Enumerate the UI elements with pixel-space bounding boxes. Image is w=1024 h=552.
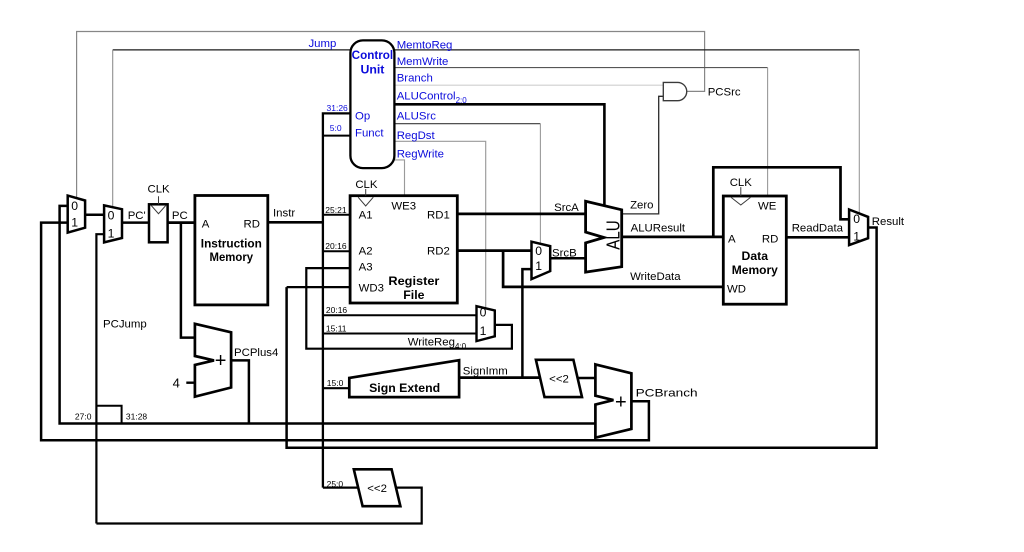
wire PC tap to PCPlus4 adder xyxy=(181,223,195,338)
mux M5 result/MemtoReg mux xyxy=(849,210,868,246)
svg-text:Instruction: Instruction xyxy=(201,236,262,250)
svg-text:A: A xyxy=(728,233,736,245)
svg-text:PCBranch: PCBranch xyxy=(636,387,698,399)
svg-text:0: 0 xyxy=(71,199,78,213)
wire ReadData (data memory RD to result mux input 1) xyxy=(786,236,849,239)
svg-text:Memory: Memory xyxy=(210,250,254,264)
wire Instr vertical bus with Op tap xyxy=(323,113,351,487)
wire PC (PC register to instruction memory) xyxy=(168,221,195,224)
svg-text:WriteData: WriteData xyxy=(630,271,681,283)
svg-text:PCJump: PCJump xyxy=(103,319,147,331)
svg-text:MemWrite: MemWrite xyxy=(397,56,449,68)
svg-text:Unit: Unit xyxy=(360,62,384,76)
svg-text:Sign Extend: Sign Extend xyxy=(369,381,440,395)
svg-text:PC: PC xyxy=(172,210,188,222)
svg-text:1: 1 xyxy=(853,230,860,244)
mux M2 jump mux xyxy=(104,205,122,242)
wire Result to WD3 xyxy=(287,286,351,288)
register PC xyxy=(149,204,168,242)
svg-text:Control: Control xyxy=(352,48,394,62)
wire 15:0 to sign extend xyxy=(323,387,349,389)
wire MemWrite horizontal xyxy=(394,67,767,69)
svg-text:PC': PC' xyxy=(128,210,146,222)
shifter S1 branch left-shift-2 xyxy=(536,360,582,397)
wire PCJump vertical (to jump mux input 1) xyxy=(96,234,104,523)
svg-text:Jump: Jump xyxy=(308,38,336,50)
svg-text:A: A xyxy=(202,219,210,231)
wire RD2 to SrcB mux input 0 xyxy=(457,249,531,252)
wire Jump (control unit left to jump mux select) xyxy=(113,49,351,51)
wire MemWrite vertical to WE xyxy=(767,68,769,197)
svg-text:+: + xyxy=(615,391,627,413)
wire ALUResult (ALU to data memory A) xyxy=(622,236,724,239)
wire MemtoReg select vertical xyxy=(858,50,860,214)
svg-text:WD3: WD3 xyxy=(359,282,384,294)
wire jump concat step 31:28/27:0 xyxy=(96,406,121,424)
svg-text:SrcA: SrcA xyxy=(554,202,579,214)
svg-text:0: 0 xyxy=(853,212,860,226)
svg-text:A3: A3 xyxy=(359,261,373,273)
svg-text:1: 1 xyxy=(535,259,542,273)
svg-text:ReadData: ReadData xyxy=(792,223,844,235)
svg-text:Funct: Funct xyxy=(355,128,384,140)
data memory box xyxy=(723,196,786,304)
instruction memory box xyxy=(195,196,268,305)
svg-text:<<2: <<2 xyxy=(549,374,569,386)
svg-text:0: 0 xyxy=(535,244,542,258)
clock stub data memory xyxy=(740,187,742,196)
wire 20:16 to WriteReg mux input 0 xyxy=(323,314,477,316)
svg-text:1: 1 xyxy=(71,216,78,230)
wire branch mux output to jump mux input 0 xyxy=(85,213,104,216)
wire PCBranch (adder output down and left to branch mux input 1) xyxy=(41,223,649,441)
wire Result feedback (mux output down, along bottom, up to WD3) xyxy=(287,228,877,448)
wire PCPlus4 (adder output down, left along bottom, up to branch mux input 0) xyxy=(60,206,596,424)
svg-text:31:26: 31:26 xyxy=(327,103,349,113)
svg-text:0: 0 xyxy=(480,306,487,320)
clock stub PC xyxy=(158,196,160,204)
svg-text:WE: WE xyxy=(758,200,777,212)
svg-text:CLK: CLK xyxy=(355,179,378,191)
svg-text:1: 1 xyxy=(108,226,115,240)
svg-text:PCPlus4: PCPlus4 xyxy=(234,347,278,359)
register file box xyxy=(350,196,457,303)
wire PCSrc loop (AND output up over top to branch mux select) xyxy=(77,32,705,198)
svg-text:RD2: RD2 xyxy=(427,245,450,257)
svg-text:CLK: CLK xyxy=(148,184,171,196)
wire constant 4 stub xyxy=(186,382,195,384)
svg-text:ALU: ALU xyxy=(603,220,623,250)
svg-text:Op: Op xyxy=(355,111,370,123)
wire 20:16 to A2 xyxy=(323,250,350,252)
svg-text:1: 1 xyxy=(480,324,487,338)
svg-text:PCSrc: PCSrc xyxy=(708,86,741,98)
wire SignImm (sign extend output to branch shifter) xyxy=(459,376,540,379)
svg-text:RD1: RD1 xyxy=(427,209,450,221)
svg-text:SignImm: SignImm xyxy=(463,366,508,378)
svg-text:ALUSrc: ALUSrc xyxy=(397,111,437,123)
svg-text:0: 0 xyxy=(108,208,115,222)
adder PCBranch xyxy=(595,364,631,437)
svg-text:Zero: Zero xyxy=(630,199,653,211)
ALU U2 xyxy=(586,201,622,272)
svg-text:15:11: 15:11 xyxy=(326,323,347,333)
svg-text:File: File xyxy=(403,288,424,302)
clock triangle data memory xyxy=(731,197,750,205)
svg-text:WE3: WE3 xyxy=(391,201,416,213)
svg-text:CLK: CLK xyxy=(730,177,753,189)
wire SrcA (RD1 to ALU) xyxy=(457,213,585,216)
svg-text:RD: RD xyxy=(244,219,260,231)
svg-text:31:28: 31:28 xyxy=(126,411,148,421)
wire SrcB (mux output to ALU) xyxy=(550,257,585,260)
svg-text:Branch: Branch xyxy=(397,73,433,85)
wire jump shifter output (down and left along bottom) xyxy=(96,488,421,524)
svg-text:ALUResult: ALUResult xyxy=(631,223,686,235)
wire Instr (instruction memory RD to fan-out bus) xyxy=(268,221,323,224)
sign extend block xyxy=(349,360,459,397)
svg-text:Instr: Instr xyxy=(273,208,295,220)
clock triangle register file xyxy=(358,197,373,206)
clock stub register file xyxy=(365,189,367,196)
svg-text:20:16: 20:16 xyxy=(325,241,347,251)
wire RegDst xyxy=(394,141,485,308)
wire ALUSrc horizontal xyxy=(394,123,540,125)
wire jump shifter input 25:0 xyxy=(323,487,358,489)
svg-text:SrcB: SrcB xyxy=(552,248,577,260)
wire 25:21 to A1 xyxy=(323,214,350,216)
svg-text:Register: Register xyxy=(388,274,439,288)
wire 15:11 to WriteReg mux input 1 xyxy=(323,333,477,335)
svg-text:Memory: Memory xyxy=(732,263,778,277)
clock triangle PC xyxy=(151,206,165,214)
svg-text:15:0: 15:0 xyxy=(327,378,344,388)
svg-text:WD: WD xyxy=(727,283,746,295)
svg-text:+: + xyxy=(215,350,227,372)
adder PCPlus4 xyxy=(195,324,231,397)
wire Branch (to AND gate input) xyxy=(394,84,663,86)
mux M1 branch/PCSrc mux xyxy=(68,196,85,233)
AND gate PCSrc xyxy=(663,82,686,100)
svg-text:A2: A2 xyxy=(359,245,373,257)
wire SignImm riser to SrcB mux input 1 xyxy=(522,269,531,378)
mux M3 WriteReg/RegDst mux xyxy=(477,306,495,341)
wire WriteData (RD2 tap to data memory WD) xyxy=(503,251,723,287)
svg-text:RD: RD xyxy=(762,233,778,245)
control unit box U1 xyxy=(350,40,394,168)
svg-text:20:16: 20:16 xyxy=(326,305,348,315)
wire ALUResult bypass over data memory to result mux input 0 xyxy=(713,167,849,237)
shifter S2 jump left-shift-2 xyxy=(354,469,401,506)
svg-text:Data: Data xyxy=(742,249,769,263)
svg-text:5:0: 5:0 xyxy=(330,123,342,133)
svg-text:A1: A1 xyxy=(359,209,373,221)
wire Zero (ALU to AND gate) xyxy=(623,96,664,214)
svg-text:RegDst: RegDst xyxy=(397,130,436,142)
svg-text:25:0: 25:0 xyxy=(327,479,344,489)
svg-text:4: 4 xyxy=(173,376,180,391)
svg-text:RegWrite: RegWrite xyxy=(397,149,444,161)
wire PC' (jump mux output to PC register) xyxy=(122,221,149,224)
wire WriteReg loop (mux output to A3) xyxy=(306,268,512,349)
wire ALUControl bus xyxy=(394,104,604,206)
wire ALUSrc select vertical xyxy=(539,124,541,245)
wire MemtoReg horizontal xyxy=(394,49,859,51)
svg-text:MemtoReg: MemtoReg xyxy=(397,39,453,51)
svg-text:Result: Result xyxy=(872,216,905,228)
svg-text:25:21: 25:21 xyxy=(325,205,347,215)
wire Jump select vertical xyxy=(112,50,114,207)
wire branch shifter output to branch adder xyxy=(578,377,596,380)
wire Funct 5:0 tap xyxy=(323,135,351,137)
mux M4 SrcB/ALUSrc mux xyxy=(532,242,551,279)
wire RegWrite xyxy=(394,160,404,196)
svg-text:27:0: 27:0 xyxy=(75,411,92,421)
svg-text:<<2: <<2 xyxy=(367,483,387,495)
